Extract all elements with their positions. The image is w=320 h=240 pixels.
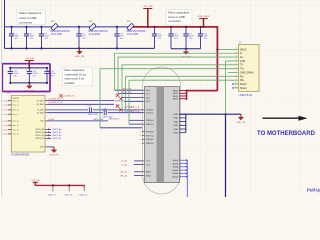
svg-text:SBU2: SBU2 [146,175,152,177]
svg-text:VDD18: VDD18 [13,98,19,100]
svg-text:Con_1+: Con_1+ [12,100,20,102]
svg-text:CC_A2: CC_A2 [121,163,127,166]
svg-text:Tx_Con_1-: Tx_Con_1- [1,114,11,116]
svg-text:TX+: TX+ [240,69,245,71]
svg-text:connector: connector [168,19,181,23]
svg-text:RX_AP1: RX_AP1 [37,99,44,102]
svg-text:USB2_N_A: USB2_N_A [122,91,132,94]
svg-text:Shield: Shield [172,173,178,175]
svg-text:GND: GND [174,114,179,116]
svg-text:Tx_Con_2-: Tx_Con_2- [1,134,11,136]
svg-text:VBUS: VBUS [173,96,179,98]
svg-text:x: x [140,143,141,145]
svg-text:11: 11 [235,87,237,89]
svg-text:1%: 1% [85,194,88,196]
svg-text:CMPS_SEL: CMPS_SEL [93,119,105,121]
svg-text:Shield: Shield [172,177,178,179]
svg-text:SSRXp1: SSRXp1 [146,120,155,122]
svg-text:SBU1: SBU1 [146,172,152,174]
svg-text:+5V_PB: +5V_PB [31,180,40,182]
svg-text:SSRXn2: SSRXn2 [146,143,155,145]
svg-text:TX_AP1: TX_AP1 [37,109,44,112]
svg-text:GND: GND [174,133,179,135]
svg-text:Con_1-: Con_1- [12,114,19,116]
svg-text:Rx_Con_1-: Rx_Con_1- [1,105,11,107]
svg-text:Tx_Con_2+: Tx_Con_2+ [1,130,12,132]
svg-text:1%: 1% [70,194,73,196]
svg-text:GND: GND [174,129,179,131]
svg-text:TUSB546RNQR: TUSB546RNQR [11,154,29,157]
svg-text:USB2_P_A: USB2_P_A [122,87,132,90]
svg-text:Con_1+: Con_1+ [12,110,20,112]
svg-text:RX_AM1: RX_AM1 [36,103,44,106]
svg-text:Rx_Con_1+: Rx_Con_1+ [1,100,12,102]
svg-text:Rx_Con_2-: Rx_Con_2- [1,125,11,127]
svg-text:A_USB3_TX: A_USB3_TX [64,95,75,98]
svg-text:Shield: Shield [172,170,178,172]
svg-text:GND: GND [174,125,179,127]
svg-text:VBUS: VBUS [173,90,179,92]
svg-text:TX-: TX- [240,65,244,67]
svg-text:Con_1-: Con_1- [12,105,19,107]
svg-text:+5V_USB: +5V_USB [143,6,153,8]
svg-text:A_SEL: A_SEL [49,118,55,121]
svg-text:Shield: Shield [240,88,247,90]
svg-text:Pull-Up: Pull-Up [307,187,320,192]
svg-text:10: 10 [235,83,237,85]
svg-text:GND: GND [40,147,45,149]
svg-text:SSTX_N_A: SSTX_N_A [130,110,140,113]
svg-text:x: x [140,135,141,137]
svg-text:SSRXp2: SSRXp2 [146,139,155,141]
svg-text:VBUS: VBUS [240,49,247,51]
svg-text:Tx_Con_1+: Tx_Con_1+ [1,110,12,112]
svg-text:Con_2-: Con_2- [12,134,19,136]
svg-text:close to USB: close to USB [19,16,36,20]
svg-text:USB3_RX_P: USB3_RX_P [109,118,121,120]
svg-text:RX+: RX+ [240,80,245,82]
svg-text:D-: D- [240,53,243,55]
svg-text:SSTXp2: SSTXp2 [146,132,154,134]
svg-text:SSTXn1: SSTXn1 [146,113,154,115]
svg-text:possible: possible [65,81,75,85]
svg-text:x: x [140,139,141,141]
svg-text:GND_PB: GND_PB [25,91,35,93]
svg-text:USB3 B IN: USB3 B IN [239,93,253,97]
svg-text:GND_DRAIN: GND_DRAIN [240,71,254,74]
svg-text:Place capacitors: Place capacitors [19,11,42,15]
svg-text:CMPS_B1: CMPS_B1 [35,138,44,140]
svg-text:VBUS: VBUS [173,93,179,95]
svg-text:Con_2+: Con_2+ [12,121,20,123]
svg-text:BLM15DPU0SH2D: BLM15DPU0SH2D [51,31,71,33]
svg-text:GND_PB: GND_PB [50,155,60,157]
svg-text:11-01-0058: 11-01-0058 [89,34,101,36]
svg-text:CMPS_B0: CMPS_B0 [35,132,44,134]
svg-text:Shield: Shield [172,163,178,165]
svg-text:GND: GND [240,61,245,63]
svg-text:SSTX_P_A: SSTX_P_A [130,106,140,109]
svg-text:TO MOTHERBOARD: TO MOTHERBOARD [257,131,316,137]
svg-text:CC_A1: CC_A1 [121,160,127,163]
svg-text:Con_2+: Con_2+ [12,130,20,132]
svg-text:USB3_RX: USB3_RX [115,101,124,103]
svg-text:Shield: Shield [240,84,247,86]
svg-text:underneath U1 as: underneath U1 as [65,72,87,76]
svg-text:CMPS_A0: CMPS_A0 [52,128,62,131]
svg-text:GND_VM: GND_VM [75,56,85,58]
svg-text:GND_PB: GND_PB [236,122,246,124]
svg-text:BLM15DPU0SH2D: BLM15DPU0SH2D [89,31,109,33]
svg-text:BLM15DPU0SH2D: BLM15DPU0SH2D [127,31,147,33]
svg-text:RX-: RX- [240,76,244,78]
svg-text:CMPS_A1: CMPS_A1 [35,134,44,137]
svg-text:A_USB3_RX_N: A_USB3_RX_N [49,101,63,104]
svg-text:close to pin 5 as: close to pin 5 as [65,77,85,81]
svg-text:SSTXn2: SSTXn2 [146,135,154,137]
svg-text:TX_AM1: TX_AM1 [37,112,44,115]
svg-text:CMPS_A0: CMPS_A0 [35,128,44,131]
svg-text:Shield: Shield [172,160,178,162]
svg-text:CMPS_B1: CMPS_B1 [52,138,62,140]
svg-text:11-01-0058: 11-01-0058 [51,34,63,36]
svg-text:Rx_Con_2+: Rx_Con_2+ [1,121,12,123]
svg-text:A_USB3_RX_P: A_USB3_RX_P [49,98,63,101]
svg-text:SBU_A2: SBU_A2 [120,174,127,177]
svg-text:+5V_PB: +5V_PB [25,58,34,60]
svg-text:USB_VBUS: USB_VBUS [198,16,210,18]
svg-text:100nF 50V: 100nF 50V [88,114,99,116]
svg-text:Shield: Shield [172,167,178,169]
svg-text:GND: GND [174,118,179,120]
svg-text:SBU_A1: SBU_A1 [120,171,127,174]
svg-text:connector: connector [19,20,32,24]
svg-text:11-01-0058: 11-01-0058 [127,34,139,36]
svg-text:Place capacitors: Place capacitors [65,68,85,72]
svg-text:Con_2-: Con_2- [12,125,19,127]
svg-text:SSTXp1: SSTXp1 [146,110,154,112]
svg-text:CMPS_A1: CMPS_A1 [52,134,62,137]
svg-text:GND: GND [174,121,179,123]
svg-text:SSRXn1: SSRXn1 [146,124,155,126]
svg-text:1%: 1% [53,194,56,196]
svg-text:x: x [140,131,141,133]
svg-text:CMPS_B0: CMPS_B0 [52,132,62,134]
svg-text:VBUS: VBUS [173,99,179,101]
svg-text:SEL: SEL [40,121,44,123]
